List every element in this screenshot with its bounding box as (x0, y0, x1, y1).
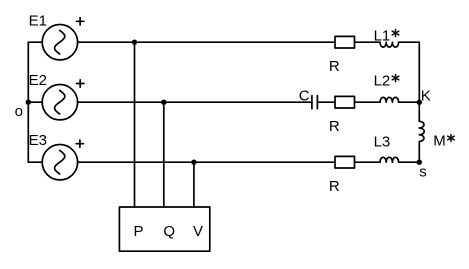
svg-text:L2: L2 (374, 73, 391, 90)
wire top row: E1 to resistor R1 (78, 41, 335, 43)
label + (E1 polarity) (76, 18, 83, 25)
svg-text:L1: L1 (374, 27, 391, 44)
node junction wire1/top row (132, 40, 137, 45)
wire bottom row: L3 to node s (399, 161, 420, 163)
svg-text:R: R (329, 58, 340, 75)
svg-text:Q: Q (163, 223, 175, 240)
wire right vertical: M to node s (418, 142, 420, 163)
svg-text:E1: E1 (29, 13, 47, 30)
wire top row: L1 to right corner, down to node K (399, 42, 420, 102)
wire bottom row: R to L3 (355, 161, 381, 163)
inductor L2 (arcs above wire) (380, 97, 399, 102)
source E1 (42, 25, 77, 60)
capacitor C (312, 96, 318, 109)
svg-text:P: P (134, 223, 144, 240)
svg-text:o: o (15, 103, 23, 120)
wire left vertical bus from E1 to E3 (27, 42, 29, 162)
resistor R (bottom) (335, 156, 355, 168)
node K (417, 100, 422, 105)
svg-text:E3: E3 (29, 132, 47, 149)
node s (417, 160, 422, 165)
wire meter lead 1 (P) (134, 42, 136, 207)
wire E2 left lead (28, 101, 42, 103)
inductor L1 (arcs below wire) (380, 42, 399, 47)
wire middle row: R to L2 (355, 101, 381, 103)
inductor L3 (arcs above wire) (380, 157, 399, 162)
resistor R (middle) (335, 96, 355, 108)
resistor R (top) (335, 36, 355, 48)
wire middle row: C to resistor (317, 101, 335, 103)
wire meter lead 3 (V) (193, 162, 195, 207)
svg-text:s: s (419, 163, 427, 180)
wire meter lead 2 (Q) (163, 102, 165, 207)
svg-text:V: V (193, 223, 203, 240)
inductor M (vertical, arcs bulge right) (419, 121, 424, 141)
wire middle row: L2 to node K (399, 101, 420, 103)
wire right vertical: K to mutual inductor M (418, 102, 420, 121)
svg-text:R: R (329, 178, 340, 195)
svg-text:R: R (329, 118, 340, 135)
wire top row: R to L1 (355, 41, 381, 43)
wire E3 left lead (28, 161, 42, 163)
label + (E3 polarity) (76, 140, 83, 147)
node o (26, 100, 31, 105)
node junction wire2/middle row (161, 100, 166, 105)
wire bottom row: E3 to resistor (78, 161, 335, 163)
node junction wire3/bottom row (191, 160, 196, 165)
wire middle row: E2 to capacitor C (78, 101, 312, 103)
label + (E2 polarity) (77, 80, 84, 87)
source E2 (42, 85, 77, 120)
meter box PQV (119, 207, 209, 251)
source E3 (42, 145, 77, 180)
svg-text:E2: E2 (29, 72, 47, 89)
wire E1 left lead (28, 41, 42, 43)
svg-text:C: C (299, 88, 310, 105)
svg-text:K: K (421, 87, 431, 104)
svg-text:L3: L3 (374, 133, 391, 150)
svg-text:M: M (433, 133, 446, 150)
